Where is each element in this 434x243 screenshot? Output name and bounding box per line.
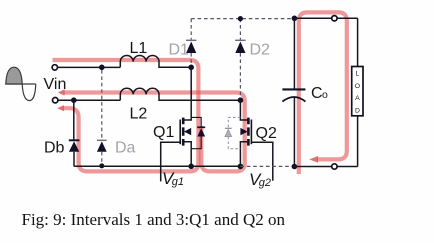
Vg1 label xyxy=(162,169,184,188)
svg-text:D: D xyxy=(355,107,360,114)
svg-text:C: C xyxy=(311,85,323,102)
svg-text:Q2: Q2 xyxy=(256,125,277,142)
node A (L1 / D1 / Q1 drain) xyxy=(188,65,194,71)
bottom rail dashed segment xyxy=(240,165,294,167)
svg-text:o: o xyxy=(322,89,328,101)
svg-text:Da: Da xyxy=(115,140,136,157)
node row1 / Da branch xyxy=(99,65,105,71)
svg-text:Db: Db xyxy=(44,140,65,157)
svg-text:L: L xyxy=(356,71,360,78)
svg-text:A: A xyxy=(355,95,360,102)
node B (L2 / D2 / Q2 drain) xyxy=(238,97,244,103)
Vg2 label xyxy=(249,170,271,189)
svg-text:g2: g2 xyxy=(259,177,271,189)
terminal row1 (Vin +) xyxy=(52,65,57,70)
Q2 gate wire to Vg2 xyxy=(251,142,272,181)
Q1 gate wire to Vg1 xyxy=(161,142,181,181)
diode D1 (inactive, dashed) xyxy=(186,19,196,65)
body diode of Q1 xyxy=(191,117,205,148)
right branch wire to load xyxy=(357,18,359,166)
inductor L2 xyxy=(120,88,240,100)
diode Db xyxy=(69,100,80,166)
svg-text:O: O xyxy=(355,83,360,90)
node Co top xyxy=(292,15,298,21)
output terminal bottom xyxy=(332,164,337,169)
current path loop B (rail through Q2, L2 back to Vin-) xyxy=(58,89,245,171)
wire row1 from terminal to L1 xyxy=(58,66,121,68)
diode D2 (inactive, dashed) xyxy=(235,19,245,98)
node row2 / Db branch xyxy=(71,97,77,103)
svg-text:D1: D1 xyxy=(169,42,190,59)
svg-text:L1: L1 xyxy=(130,40,148,57)
inductor L1 xyxy=(120,55,191,67)
node Q2 source on rail xyxy=(238,164,244,170)
capacitor Co xyxy=(282,18,305,166)
load box xyxy=(352,67,363,116)
MOSFET Q2 xyxy=(240,100,251,166)
bottom rail solid wire xyxy=(74,165,240,167)
top rail dashed wire xyxy=(191,18,294,20)
current path loop A (Vin+ through L1, Q1, rail, Db back to Vin-) xyxy=(53,60,199,171)
node Co bottom xyxy=(292,164,298,170)
MOSFET Q1 xyxy=(180,67,191,166)
node Q1 source on rail xyxy=(188,164,194,170)
wire row2 from terminal to L2 xyxy=(58,99,120,101)
Co label xyxy=(311,85,328,102)
svg-text:Vin: Vin xyxy=(44,76,67,93)
caption xyxy=(22,210,285,230)
svg-text:D2: D2 xyxy=(250,42,271,59)
node D2 on top rail xyxy=(238,16,243,21)
diode Da (inactive, dashed) xyxy=(97,70,107,168)
output terminal top xyxy=(332,16,337,21)
svg-text:g1: g1 xyxy=(172,176,184,188)
current path outer loop (Co discharging into load) xyxy=(299,12,347,174)
AC source sine symbol xyxy=(5,67,35,100)
svg-text:L2: L2 xyxy=(130,106,148,123)
terminal row2 (Vin -) xyxy=(53,98,58,103)
bottom rail right solid wire xyxy=(294,166,357,168)
body diode of Q2 (inactive, dashed) xyxy=(225,117,241,148)
svg-text:Q1: Q1 xyxy=(153,124,174,141)
top rail solid wire xyxy=(294,17,357,19)
